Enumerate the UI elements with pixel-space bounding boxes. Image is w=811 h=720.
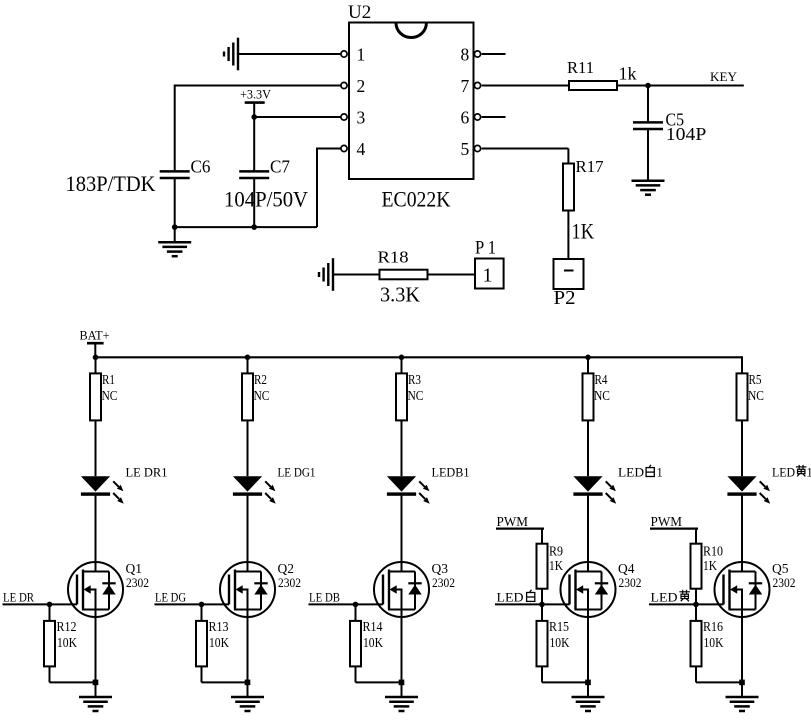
- transistor Q2 (N-MOSFET 2302): [220, 562, 275, 617]
- junction C7 bottom: [251, 224, 257, 230]
- svg-text:10K: 10K: [363, 635, 383, 650]
- capacitor C6: [160, 171, 190, 178]
- svg-text:R18: R18: [378, 248, 409, 267]
- wire rail to R3: [401, 357, 403, 373]
- svg-text:C7: C7: [270, 157, 290, 177]
- svg-text:LED: LED: [618, 466, 644, 480]
- capacitor C7: [239, 171, 269, 178]
- junction rail branch 4: [585, 355, 591, 361]
- svg-text:2302: 2302: [432, 576, 455, 590]
- wire LED to MOSFET drain: [587, 496, 589, 572]
- svg-text:R15: R15: [549, 619, 569, 634]
- svg-text:1k: 1k: [619, 64, 637, 84]
- transistor Q1 (N-MOSFET 2302): [68, 562, 123, 617]
- wire pin7 to R11: [482, 85, 569, 87]
- PWM bar: [650, 527, 698, 529]
- connector P1: [475, 259, 504, 289]
- wire source to ground: [401, 610, 403, 698]
- svg-text:NC: NC: [748, 388, 764, 403]
- wire R18 to P1: [428, 274, 476, 276]
- svg-text:R1: R1: [102, 372, 115, 387]
- wire gate net branch 4: [495, 603, 570, 605]
- wire R11 to KEY: [617, 85, 744, 87]
- wire BAT+ rail: [95, 356, 742, 358]
- svg-text:PWM: PWM: [651, 514, 683, 529]
- svg-text:LE DB: LE DB: [309, 590, 340, 604]
- wire C5 to ground: [647, 129, 649, 181]
- wire resistor to LED: [741, 420, 743, 476]
- wire R16 down: [695, 666, 697, 682]
- power bar +3.3V: [245, 101, 265, 104]
- wire gate net branch 5: [649, 603, 724, 605]
- wire pin8 stub: [482, 53, 506, 55]
- svg-text:EC022K: EC022K: [382, 187, 452, 212]
- ground (sideways) at R18: [319, 258, 333, 291]
- wire gate net branch 1: [3, 603, 78, 605]
- svg-text:2302: 2302: [619, 576, 642, 590]
- svg-text:R14: R14: [363, 619, 383, 634]
- connector P2: [554, 259, 584, 289]
- pin 7 circle of U2: [474, 82, 480, 88]
- wire to R12: [49, 604, 51, 621]
- LED D4 (LED): [573, 476, 616, 504]
- svg-text:1: 1: [657, 466, 663, 480]
- op-amp U2 (8-pin IC body EC022K): [349, 23, 474, 180]
- pin 2 circle of U2: [341, 82, 347, 88]
- svg-text:R10: R10: [703, 544, 723, 559]
- svg-text:1K: 1K: [572, 219, 595, 244]
- svg-text:R17: R17: [576, 157, 604, 176]
- svg-text:1: 1: [357, 45, 366, 65]
- svg-text:1K: 1K: [703, 558, 717, 573]
- junction rail branch 3: [399, 355, 405, 361]
- transistor Q5 (N-MOSFET 2302): [715, 562, 770, 617]
- wire R13 down: [201, 666, 203, 682]
- wire R15 down: [541, 666, 543, 682]
- ground branch 3: [385, 697, 418, 711]
- wire LED to MOSFET drain: [401, 496, 403, 572]
- ground branch 4: [572, 697, 605, 711]
- LED D5 (LED): [727, 476, 770, 504]
- svg-text:P2: P2: [554, 288, 576, 309]
- svg-text:LE DG1: LE DG1: [278, 466, 316, 480]
- pin 6 circle of U2: [474, 114, 480, 120]
- svg-text:1: 1: [483, 265, 493, 287]
- svg-text:+3.3V: +3.3V: [240, 88, 271, 102]
- ground branch 1: [79, 697, 112, 711]
- wire rail to R1: [95, 357, 97, 373]
- junction gate/pulldown: [353, 602, 359, 608]
- junction C6 bottom: [172, 224, 178, 230]
- wire R15 to source: [542, 681, 588, 683]
- wire to R13: [201, 604, 203, 621]
- wire PWM to R10: [695, 529, 697, 544]
- wire resistor to LED: [401, 420, 403, 476]
- ground branch 2: [231, 697, 264, 711]
- wire pin6 stub: [482, 116, 506, 118]
- svg-text:3: 3: [357, 108, 366, 128]
- node junction pin3/+3.3V/C7: [251, 114, 257, 120]
- wire pin4 down: [316, 148, 318, 228]
- resistor R15: [537, 621, 548, 667]
- svg-text:KEY: KEY: [710, 70, 737, 84]
- wire resistor to LED: [95, 420, 97, 476]
- LED D1 (LE DR1): [81, 476, 124, 504]
- svg-text:2302: 2302: [126, 576, 149, 590]
- wire C6 bottom: [174, 178, 176, 227]
- resistor R11: [569, 81, 617, 90]
- ground under C6: [158, 242, 191, 256]
- wire gate net branch 3: [309, 603, 384, 605]
- wire down to R17: [567, 149, 569, 164]
- svg-text:4: 4: [357, 139, 366, 159]
- svg-text:R12: R12: [57, 619, 77, 634]
- svg-text:Q1: Q1: [126, 561, 143, 576]
- junction source/pulldown: [739, 680, 745, 686]
- transistor Q4 (N-MOSFET 2302): [561, 562, 616, 617]
- wire source to ground: [247, 610, 249, 698]
- svg-text:LE DG: LE DG: [155, 590, 186, 604]
- svg-text:2: 2: [357, 76, 366, 96]
- junction gate/pulldown: [539, 602, 545, 608]
- wire source to ground: [587, 610, 589, 698]
- transistor Q3 (N-MOSFET 2302): [374, 562, 429, 617]
- wire down to C5: [647, 86, 649, 123]
- svg-text:104P/50V: 104P/50V: [224, 187, 308, 212]
- svg-text:Q2: Q2: [278, 561, 295, 576]
- resistor R3 (NC): [396, 373, 407, 420]
- resistor R10: [691, 544, 702, 589]
- svg-text:10K: 10K: [550, 635, 570, 650]
- pin 3 circle of U2: [341, 114, 347, 120]
- svg-text:6: 6: [461, 108, 470, 128]
- ground (sideways) at pin 1: [224, 38, 238, 71]
- wire R14 down: [355, 666, 357, 682]
- wire R9 to gate net: [541, 589, 543, 605]
- wire down to C7: [253, 117, 255, 171]
- svg-text:1: 1: [807, 466, 811, 480]
- svg-text:LE DR1: LE DR1: [126, 466, 168, 480]
- svg-text:P 1: P 1: [475, 238, 496, 259]
- wire C7 bottom: [253, 178, 255, 227]
- junction source/pulldown: [93, 680, 99, 686]
- svg-text:10K: 10K: [209, 635, 229, 650]
- svg-text:183P/TDK: 183P/TDK: [66, 171, 157, 196]
- svg-text:R4: R4: [595, 372, 608, 387]
- wire R13 to source: [202, 681, 248, 683]
- svg-text:7: 7: [461, 76, 470, 96]
- resistor R9: [537, 544, 548, 589]
- wire LED to MOSFET drain: [741, 496, 743, 572]
- wire resistor to LED: [247, 420, 249, 476]
- wire LED to MOSFET drain: [247, 496, 249, 572]
- junction source/pulldown: [399, 680, 405, 686]
- LED D3 (LEDB1): [387, 476, 430, 504]
- svg-text:10K: 10K: [57, 635, 77, 650]
- wire R16 to source: [696, 681, 742, 683]
- wire gate net branch 2: [155, 603, 230, 605]
- PWM bar: [496, 527, 544, 529]
- svg-text:3.3K: 3.3K: [380, 283, 420, 307]
- junction rail branch 1: [93, 355, 99, 361]
- svg-text:C6: C6: [191, 157, 211, 177]
- svg-text:LED: LED: [651, 590, 678, 604]
- svg-text:R2: R2: [254, 372, 267, 387]
- svg-text:LED: LED: [772, 466, 795, 480]
- svg-text:R5: R5: [749, 372, 762, 387]
- wire BAT+ down: [94, 343, 96, 357]
- wire R12 to source: [50, 681, 96, 683]
- wire +3.3V down: [253, 103, 255, 117]
- wire down to C6: [174, 85, 176, 172]
- junction gate/pulldown: [693, 602, 699, 608]
- wire pin1 to ground: [239, 53, 341, 55]
- dash inside P2: [564, 270, 574, 272]
- svg-text:1K: 1K: [549, 558, 563, 573]
- wire to R15: [541, 604, 543, 621]
- resistor R12: [44, 621, 55, 667]
- svg-text:8: 8: [461, 45, 470, 65]
- wire pin4 left: [317, 148, 341, 150]
- svg-text:NC: NC: [254, 388, 270, 403]
- resistor R4 (NC): [583, 373, 594, 420]
- wire to ground: [174, 227, 176, 242]
- wire R10 to gate net: [695, 589, 697, 605]
- svg-text:Q4: Q4: [618, 561, 635, 576]
- wire to R14: [355, 604, 357, 621]
- ground under C5: [632, 181, 665, 195]
- wire pin5 right: [482, 148, 569, 150]
- wire LED to MOSFET drain: [95, 496, 97, 572]
- resistor R16: [691, 621, 702, 667]
- svg-text:R9: R9: [549, 544, 563, 559]
- svg-text:R13: R13: [209, 619, 229, 634]
- pin 5 circle of U2: [474, 145, 480, 151]
- junction gate/pulldown: [47, 602, 53, 608]
- svg-text:LE DR: LE DR: [3, 590, 35, 604]
- svg-text:Q3: Q3: [432, 561, 449, 576]
- junction source/pulldown: [585, 680, 591, 686]
- junction gate/pulldown: [199, 602, 205, 608]
- resistor R17: [563, 164, 574, 211]
- svg-text:10K: 10K: [704, 635, 724, 650]
- wire R12 down: [49, 666, 51, 682]
- svg-text:NC: NC: [408, 388, 424, 403]
- resistor R13: [196, 621, 207, 667]
- wire resistor to LED: [587, 420, 589, 476]
- pin 1 circle of U2: [341, 51, 347, 57]
- junction rail branch 2: [245, 355, 251, 361]
- svg-text:104P: 104P: [666, 124, 707, 144]
- pin 4 circle of U2: [341, 145, 347, 151]
- svg-text:2302: 2302: [773, 576, 796, 590]
- svg-text:5: 5: [461, 139, 470, 159]
- svg-text:BAT+: BAT+: [80, 329, 110, 343]
- svg-text:U2: U2: [348, 2, 371, 23]
- wire rail to R4: [587, 357, 589, 373]
- junction source/pulldown: [245, 680, 251, 686]
- wire bottom bus: [174, 226, 317, 228]
- wire pin3 left: [254, 116, 341, 118]
- resistor R18: [380, 270, 428, 280]
- svg-text:NC: NC: [594, 388, 610, 403]
- pin 8 circle of U2: [474, 51, 480, 57]
- wire R17 to P2: [567, 211, 569, 260]
- svg-text:R16: R16: [703, 619, 723, 634]
- svg-text:PWM: PWM: [497, 514, 529, 529]
- svg-text:LEDB1: LEDB1: [432, 466, 470, 480]
- junction KEY/C5: [645, 83, 651, 89]
- svg-text:R3: R3: [408, 372, 421, 387]
- svg-text:2302: 2302: [278, 576, 301, 590]
- resistor R14: [350, 621, 361, 667]
- wire rail to R2: [247, 357, 249, 373]
- wire ground to R18: [334, 274, 380, 276]
- resistor R5 (NC): [737, 373, 748, 420]
- wire rail corner down: [741, 356, 743, 373]
- wire source to ground: [95, 610, 97, 698]
- resistor R1 (NC): [90, 373, 101, 420]
- svg-text:Q5: Q5: [772, 561, 789, 576]
- wire R14 to source: [356, 681, 402, 683]
- power bar BAT+: [87, 342, 104, 345]
- resistor R2 (NC): [242, 373, 253, 420]
- wire to R16: [695, 604, 697, 621]
- wire pin2 left: [175, 85, 341, 87]
- svg-text:LED: LED: [497, 590, 524, 604]
- wire PWM to R9: [541, 529, 543, 544]
- svg-text:NC: NC: [102, 388, 118, 403]
- wire source to ground: [741, 610, 743, 698]
- svg-text:R11: R11: [567, 58, 594, 77]
- capacitor C5: [633, 122, 663, 129]
- LED D2 (LE DG1): [233, 476, 276, 504]
- ground branch 5: [726, 697, 759, 711]
